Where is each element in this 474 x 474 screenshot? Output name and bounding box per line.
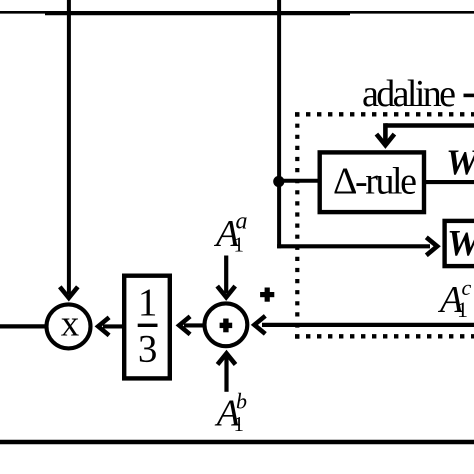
svg-text:1: 1 bbox=[457, 297, 468, 322]
svg-text:Δ-rule: Δ-rule bbox=[333, 161, 417, 203]
arrowhead into summator (up) bbox=[218, 353, 236, 364]
arrowhead into one-third box (left) bbox=[179, 316, 190, 334]
wire: delta-rule output to right edge bbox=[426, 180, 474, 184]
wire: corner horizontal to W box bbox=[277, 244, 430, 248]
wire: top horizontal bus (thick middle segment) bbox=[45, 11, 350, 15]
box: W weight block bbox=[445, 221, 474, 266]
junction dot bbox=[273, 176, 284, 187]
wire: junction to delta-rule box bbox=[279, 179, 321, 183]
svg-text:x: x bbox=[61, 304, 80, 345]
circle: summator (+) bbox=[205, 303, 248, 346]
fraction bar bbox=[138, 324, 158, 327]
box: delta-rule U1 bbox=[320, 152, 424, 212]
arrowhead into summator (down) bbox=[217, 286, 235, 297]
wire: A1a input arrow (down into summator) bbox=[224, 256, 228, 294]
wire: A1c input from right edge into summator bbox=[262, 323, 474, 327]
svg-text:W: W bbox=[447, 224, 474, 265]
svg-text:a: a bbox=[236, 209, 248, 235]
svg-text:1: 1 bbox=[234, 412, 245, 436]
wire: multiplier output to left edge bbox=[0, 324, 46, 328]
label: plus inside summator bbox=[220, 323, 233, 328]
svg-text:adaline: adaline bbox=[362, 73, 456, 115]
svg-text:1: 1 bbox=[234, 233, 245, 257]
svg-text:1: 1 bbox=[138, 281, 158, 324]
box: gain 1/3 bbox=[124, 276, 170, 379]
wire: one-third box to multiplier bbox=[103, 324, 123, 328]
wire: vertical from top bus down to corner (net to W box) bbox=[277, 0, 281, 248]
wire: bottom horizontal bus bbox=[0, 440, 474, 445]
arrowhead into multiplier (down) bbox=[60, 287, 78, 298]
dotted box: adaline layer (left edge) bbox=[295, 113, 299, 341]
circle: multiplier (x) bbox=[47, 304, 91, 348]
wire: A1b input arrow (up into summator) bbox=[224, 356, 228, 392]
arrowhead into delta-rule box (down) bbox=[376, 134, 394, 145]
svg-text:W: W bbox=[446, 142, 474, 182]
svg-text:3: 3 bbox=[138, 327, 158, 370]
wire: summator to one-third box bbox=[184, 323, 204, 327]
dotted box: adaline layer (bottom edge) bbox=[295, 334, 474, 338]
arrowhead into multiplier (left) bbox=[98, 317, 109, 335]
dotted box: adaline layer (top edge) bbox=[295, 112, 474, 116]
wire: top horizontal bus (thin full width) bbox=[0, 11, 474, 14]
svg-text:b: b bbox=[236, 389, 247, 414]
label: plus sign near summator bbox=[260, 292, 274, 297]
arrowhead into summator (left) bbox=[254, 316, 265, 334]
wire: elbow feed into delta-rule (horizontal from right edge) bbox=[385, 123, 474, 128]
wire: elbow feed into delta-rule (vertical) bbox=[383, 123, 388, 142]
arrowhead into W box (right) bbox=[426, 237, 437, 255]
wire: vertical from top bus down to multiplier bbox=[67, 0, 71, 294]
